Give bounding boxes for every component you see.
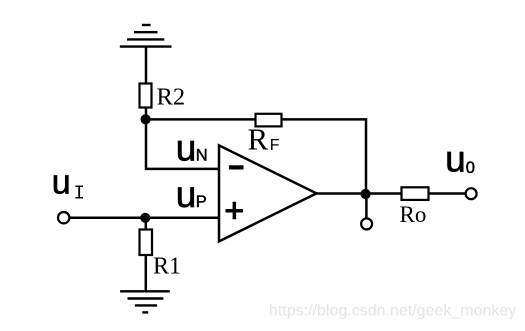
wire: GND1 to R2 top — [145, 47, 148, 84]
op-amp U1 triangle — [219, 145, 317, 241]
resistor Ro body — [402, 187, 429, 200]
wire: node B to R1 top — [145, 218, 148, 230]
svg-text:u: u — [176, 127, 197, 168]
svg-text:u: u — [52, 164, 71, 202]
svg-text:u: u — [176, 174, 197, 215]
svg-text:R2: R2 — [157, 83, 186, 110]
op-amp U1 minus sign (inverting input) — [229, 165, 244, 169]
wire: node A down and right to inverting input — [146, 119, 219, 168]
svg-text:R1: R1 — [153, 254, 181, 280]
svg-text:F: F — [270, 137, 280, 154]
svg-text:N: N — [196, 146, 208, 164]
output node junction dot — [361, 189, 371, 199]
svg-text:u: u — [445, 139, 466, 180]
svg-text:R: R — [248, 122, 269, 157]
wire: R1 bottom to GND2 — [145, 255, 148, 291]
label RF — [248, 122, 280, 157]
svg-text:https://blog.csdn.net/geek_mon: https://blog.csdn.net/geek_monkey — [269, 303, 516, 320]
label u_0 — [445, 139, 475, 180]
svg-text:I: I — [74, 182, 85, 204]
label u_I — [52, 164, 85, 205]
wire: R2 bottom to node A — [145, 108, 148, 120]
probe terminal circle below output node — [361, 218, 372, 229]
svg-text:Ro: Ro — [400, 202, 427, 227]
wire: Ro to output terminal — [429, 192, 466, 195]
wire: RF right, corner, down to output node — [281, 119, 366, 194]
wire: input terminal to non-inverting input — [69, 216, 219, 219]
wire: node A to RF left (feedback top run) — [146, 118, 257, 121]
ground GND1 (top, inverted earth symbol) — [120, 25, 172, 47]
output terminal circle (u_0) — [466, 188, 477, 199]
wire: output node down to probe terminal — [365, 194, 368, 218]
resistor R2 body — [140, 84, 152, 108]
input terminal circle (u_I) — [58, 212, 69, 223]
svg-text:0: 0 — [466, 159, 475, 177]
svg-text:P: P — [196, 193, 207, 211]
node A junction dot — [141, 114, 151, 124]
op-amp U1 plus sign (non-inverting input) — [226, 202, 244, 220]
label u_P — [176, 174, 207, 215]
wire: op-amp output to Ro — [317, 192, 403, 195]
ground GND2 (bottom earth symbol) — [120, 291, 170, 312]
resistor R1 body — [140, 230, 153, 256]
label u_N — [176, 127, 208, 168]
node B junction dot (input / R1) — [140, 213, 150, 223]
resistor RF body — [256, 114, 282, 127]
